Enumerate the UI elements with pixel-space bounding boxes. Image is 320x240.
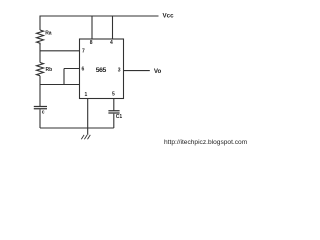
ground symbol (81, 135, 90, 139)
svg-text:c: c (42, 110, 45, 116)
op-amp/timer IC U1 box (80, 39, 124, 99)
wire: pin 7 wire from left rail to IC (40, 50, 80, 52)
svg-text:Ra: Ra (45, 31, 52, 37)
svg-text:7: 7 (82, 49, 85, 55)
svg-text:Rb: Rb (46, 67, 53, 73)
wire: Vcc drop to pin 4 (112, 16, 114, 39)
svg-text:3: 3 (118, 68, 121, 74)
capacitor C (34, 107, 47, 109)
wire: pin 2 wire from left rail to IC (40, 84, 80, 86)
svg-text:5: 5 (112, 92, 115, 98)
svg-text:8: 8 (90, 40, 93, 46)
wire: left rail from Vcc rail down to Ra top (39, 16, 41, 31)
capacitor C1 (108, 111, 119, 113)
wire: pin 1 down through ground rail (87, 99, 89, 135)
wire: branch from pin2 wire up to pin 6 (64, 69, 80, 85)
svg-text:http://itechpicz.blogspot.com: http://itechpicz.blogspot.com (164, 139, 248, 146)
svg-text:565: 565 (96, 67, 107, 74)
wire: Ra bottom to Rb top (39, 43, 41, 62)
wire: Vcc top rail (40, 15, 159, 17)
svg-text:6: 6 (82, 67, 85, 73)
svg-text:1: 1 (85, 92, 88, 98)
wire: capacitor C1 bottom to ground rail (113, 114, 115, 128)
svg-text:4: 4 (110, 40, 113, 46)
wire: bottom ground rail (40, 127, 114, 129)
wire: capacitor C bottom to ground rail (39, 110, 41, 129)
resistor Ra (37, 30, 44, 45)
svg-text:Vcc: Vcc (163, 13, 175, 20)
resistor Rb (37, 63, 44, 76)
wire: Rb bottom to capacitor C (39, 76, 41, 107)
wire: pin 5 down to capacitor C1 (113, 99, 115, 111)
wire: Vcc drop to pin 8 (91, 16, 93, 39)
svg-text:C1: C1 (116, 114, 123, 120)
svg-text:Vo: Vo (154, 68, 162, 75)
wire: pin 3 output wire (124, 70, 150, 72)
